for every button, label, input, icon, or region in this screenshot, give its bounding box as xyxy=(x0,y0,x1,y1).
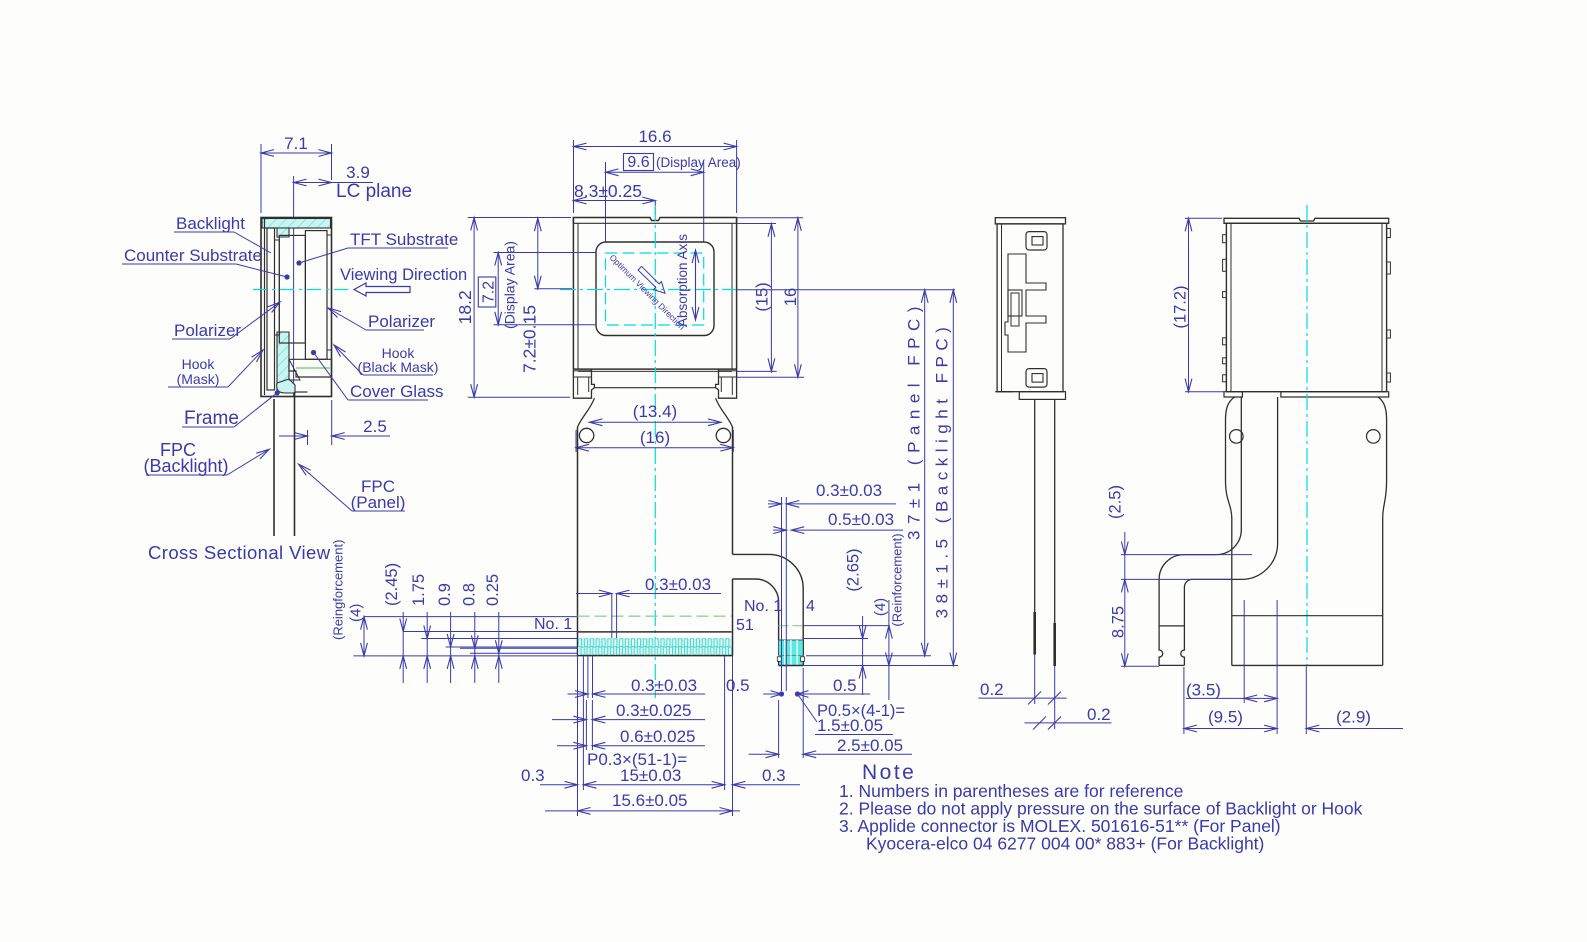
svg-text:(2.65): (2.65) xyxy=(845,548,863,591)
dim (4) right xyxy=(872,533,905,700)
optimum viewing direction arrow + text xyxy=(608,252,688,332)
dim (13.4) xyxy=(589,402,721,426)
leader P0.5x(4-1)=1.5±0.05 xyxy=(798,694,906,735)
thin side bottom cap xyxy=(995,392,1065,400)
LC plane cyan dashes (cross-section) xyxy=(253,289,349,291)
witness verticals bottom right view xyxy=(1184,600,1306,734)
label Polarizer (right) xyxy=(328,308,435,331)
svg-text:0.25: 0.25 xyxy=(484,574,502,606)
dim 0.3±0.03 under pads xyxy=(568,676,706,697)
right view edge tabs xyxy=(1223,229,1391,383)
dim 8.75 xyxy=(1110,579,1160,666)
svg-text:Hook: Hook xyxy=(182,356,216,372)
svg-text:15±0.03: 15±0.03 xyxy=(620,766,681,785)
label Cross Sectional View xyxy=(148,542,331,563)
FPC shoulders xyxy=(578,398,733,427)
dim 37±1 (Panel FPC) xyxy=(905,290,929,656)
svg-text:0.5±0.03: 0.5±0.03 xyxy=(828,510,894,529)
svg-text:Cover Glass: Cover Glass xyxy=(350,382,444,401)
label Frame xyxy=(182,390,280,429)
svg-text:Viewing Direction: Viewing Direction xyxy=(340,266,467,284)
svg-text:Kyocera-elco 04 6277 004 00* 8: Kyocera-elco 04 6277 004 00* 883+ (For B… xyxy=(866,834,1264,854)
left dims 18.2 / 7.2 disp / 7.2±0.15 xyxy=(455,218,571,398)
svg-text:0.3±0.03: 0.3±0.03 xyxy=(631,676,697,695)
dim (2.5) right view xyxy=(1107,485,1253,579)
dim (3.5) xyxy=(1186,681,1277,702)
svg-text:7.2: 7.2 xyxy=(481,281,498,303)
LC plane extension to 37/38 dims xyxy=(736,289,955,291)
dim 0.5±0.03 branch xyxy=(773,510,903,534)
svg-text:51: 51 xyxy=(736,617,754,634)
polarizer right thin xyxy=(327,235,332,350)
svg-text:0.5: 0.5 xyxy=(726,676,750,695)
note line 2 xyxy=(839,799,1363,819)
dim 9.6 (Display Area) boxed xyxy=(606,154,741,243)
dim 16.6 xyxy=(574,127,737,213)
dim (16) xyxy=(576,428,733,452)
note title xyxy=(862,761,916,784)
TFT substrate rect xyxy=(305,231,327,360)
svg-text:0.3±0.03: 0.3±0.03 xyxy=(816,481,882,500)
FPC backlight line (cross-section) xyxy=(273,399,275,536)
frame hatched column bottom-left xyxy=(277,228,295,393)
cover glass step xyxy=(289,359,332,377)
dim 0.3±0.025 xyxy=(552,701,705,723)
label Viewing Direction + hollow arrow xyxy=(340,266,467,296)
svg-text:(17.2): (17.2) xyxy=(1172,285,1190,328)
svg-text:TFT Substrate: TFT Substrate xyxy=(350,230,458,249)
cross-section dim 3.9 + LC plane label xyxy=(294,163,412,397)
svg-text:(2.9): (2.9) xyxy=(1336,708,1371,727)
dim (9.5) xyxy=(1184,708,1277,732)
label Counter Substrate xyxy=(122,246,290,280)
thin side hooks bottom xyxy=(1026,369,1047,388)
absorption axis arrow + text xyxy=(675,234,699,327)
svg-text:Polarizer: Polarizer xyxy=(174,321,241,340)
dim 0.3±0.03 branch xyxy=(768,481,896,691)
No.1 / 4 / 51 labels near branch xyxy=(736,598,815,634)
svg-text:Cross Sectional View: Cross Sectional View xyxy=(148,542,331,563)
right view FPC strip + Z bend xyxy=(1159,397,1278,665)
svg-text:Backlight: Backlight xyxy=(176,214,245,233)
svg-text:Absorption Axis: Absorption Axis xyxy=(675,234,690,327)
label Polarizer (left) xyxy=(172,302,280,340)
pads comb row (51 pads) xyxy=(578,638,732,655)
cross-section dim 7.1 xyxy=(261,134,332,213)
svg-text:0.2: 0.2 xyxy=(980,680,1004,699)
dim (2.65) xyxy=(845,548,867,695)
reinforcement level lines left xyxy=(353,617,577,656)
svg-text:(Panel): (Panel) xyxy=(351,493,406,512)
svg-text:No. 1: No. 1 xyxy=(534,616,572,633)
dim 2.5±0.05 xyxy=(749,668,912,758)
backlight FPC branch outline xyxy=(733,554,804,665)
display window rounded xyxy=(596,242,714,336)
label FPC (Backlight) xyxy=(143,440,269,476)
svg-text:18.2: 18.2 xyxy=(455,290,475,324)
svg-text:0.3±0.03: 0.3±0.03 xyxy=(645,575,711,594)
right view top cap xyxy=(1224,218,1389,223)
label FPC (Panel) xyxy=(299,464,406,512)
svg-text:(15): (15) xyxy=(754,282,772,311)
label Hook (Black Mask) xyxy=(334,345,438,375)
bezel band line between tabs xyxy=(594,387,715,389)
svg-text:9.6: 9.6 xyxy=(627,154,649,171)
svg-text:(9.5): (9.5) xyxy=(1208,708,1243,727)
stiffener top edge (black) xyxy=(578,631,732,633)
dim 0.2 upper xyxy=(978,655,1066,730)
centerline vertical (front view) xyxy=(654,205,656,698)
svg-text:Frame: Frame xyxy=(184,408,239,429)
svg-text:4: 4 xyxy=(806,598,815,615)
svg-text:16.6: 16.6 xyxy=(638,127,671,146)
polarizer left thin xyxy=(275,240,280,335)
right hook tab (front) xyxy=(716,369,737,398)
dim 0.2 lower xyxy=(1025,705,1112,730)
svg-text:0.8: 0.8 xyxy=(461,583,479,606)
FPC tail edges xyxy=(578,427,733,656)
svg-text:2.5: 2.5 xyxy=(363,417,387,436)
thin side view top cap xyxy=(995,218,1065,224)
svg-text:8.75: 8.75 xyxy=(1110,606,1128,638)
centerline horizontal (front view) xyxy=(560,289,736,291)
dim 0.3 left xyxy=(521,766,578,788)
label Hook (Mask) xyxy=(168,350,263,387)
svg-text:0.2: 0.2 xyxy=(1087,705,1111,724)
note line 1 xyxy=(839,781,1183,801)
svg-text:0.6±0.025: 0.6±0.025 xyxy=(620,727,696,746)
svg-text:(Backlight): (Backlight) xyxy=(143,456,228,476)
cross-section outer frame xyxy=(261,218,332,397)
svg-text:(Black Mask): (Black Mask) xyxy=(358,359,439,375)
thin side middle latch structure xyxy=(1005,254,1046,352)
dim 38±1.5 (Backlight FPC) xyxy=(933,290,957,666)
label TFT Substrate xyxy=(296,230,458,266)
thin side FPC tail lines xyxy=(1035,399,1055,666)
FPC bottom edge xyxy=(578,655,733,657)
svg-text:(16): (16) xyxy=(640,428,670,447)
svg-text:2.5±0.05: 2.5±0.05 xyxy=(837,736,903,755)
svg-text:37±1 (Panel FPC): 37±1 (Panel FPC) xyxy=(905,300,924,540)
display area cyan dashed xyxy=(606,253,704,325)
svg-text:LC plane: LC plane xyxy=(336,181,412,202)
svg-text:Polarizer: Polarizer xyxy=(368,312,435,331)
right view bottom cap xyxy=(1224,392,1389,397)
dim 15.6±0.05 xyxy=(545,791,740,814)
svg-text:(4): (4) xyxy=(872,598,889,616)
svg-text:(Display Area): (Display Area) xyxy=(656,155,741,170)
svg-text:3.9: 3.9 xyxy=(346,163,370,182)
svg-text:(2.45): (2.45) xyxy=(383,563,401,606)
svg-text:0.5: 0.5 xyxy=(833,676,857,695)
right view bracket outline xyxy=(1226,397,1387,665)
svg-text:0.3: 0.3 xyxy=(521,766,545,785)
svg-text:No. 1: No. 1 xyxy=(744,598,782,615)
No. 1 label left xyxy=(534,616,572,633)
left dim stack (4)(2.45)1.75 0.9 0.8 0.25 xyxy=(331,540,503,683)
note line 3 xyxy=(839,816,1281,836)
dim 0.5 right + dots xyxy=(763,676,870,697)
svg-text:(3.5): (3.5) xyxy=(1186,681,1221,700)
thin side view body xyxy=(997,224,1063,392)
dim 8.3±0.25 xyxy=(574,181,656,215)
svg-text:7.2±0.15: 7.2±0.15 xyxy=(520,305,540,373)
dim (17.2) xyxy=(1172,218,1225,391)
note line 4 xyxy=(866,834,1264,854)
label Cover Glass xyxy=(311,350,444,401)
dim P0.3x(51-1)=15±0.03 xyxy=(583,750,724,788)
svg-text:7.1: 7.1 xyxy=(284,134,308,153)
dim 2.5 (cross-section) xyxy=(279,400,390,445)
right view body xyxy=(1226,223,1386,391)
svg-text:(2.5): (2.5) xyxy=(1107,485,1125,519)
branch green dash + level lines right xyxy=(779,626,958,666)
dim 0.3 right xyxy=(733,766,801,788)
svg-text:(Display Area): (Display Area) xyxy=(502,241,518,329)
svg-text:15.6±0.05: 15.6±0.05 xyxy=(612,791,688,810)
svg-text:(13.4): (13.4) xyxy=(633,402,677,421)
svg-text:1.5±0.05: 1.5±0.05 xyxy=(817,716,883,735)
witness verticals under tail xyxy=(578,656,733,816)
front view body outline xyxy=(573,218,736,372)
green dashed reinforcement line xyxy=(578,615,732,617)
svg-text:(4): (4) xyxy=(348,604,365,622)
dim 0.6±0.025 xyxy=(557,727,705,749)
label Backlight xyxy=(174,214,271,253)
svg-text:0.3: 0.3 xyxy=(762,766,786,785)
right view holes xyxy=(1230,430,1381,444)
svg-text:16: 16 xyxy=(782,288,800,306)
right view centerline xyxy=(1306,205,1308,666)
counter substrate rect xyxy=(279,235,305,343)
backlight sheet stack (left plates) xyxy=(265,219,275,395)
dim 0.3±0.03 (pad width, above pads) xyxy=(576,575,721,638)
right dims (15) and 16 xyxy=(736,218,804,377)
svg-text:(Reinforcement): (Reinforcement) xyxy=(890,533,905,626)
svg-text:Counter Substrate: Counter Substrate xyxy=(124,246,262,265)
svg-text:0.3±0.025: 0.3±0.025 xyxy=(616,701,692,720)
svg-text:(Reingforcement): (Reingforcement) xyxy=(331,540,346,640)
svg-text:0.9: 0.9 xyxy=(436,583,454,606)
svg-text:38±1.5 (Backlight FPC): 38±1.5 (Backlight FPC) xyxy=(933,322,952,619)
FPC holes xyxy=(579,428,730,442)
dim (2.9) xyxy=(1306,708,1403,732)
dim 0.5 left (margin) xyxy=(726,676,750,695)
branch pads xyxy=(777,640,804,666)
FPC panel line (cross-section) xyxy=(294,392,296,536)
left hook tab (front) xyxy=(573,369,594,398)
svg-text:(Mask): (Mask) xyxy=(177,371,220,387)
FPC wedge below stack xyxy=(289,359,308,392)
svg-text:1.75: 1.75 xyxy=(410,574,428,606)
thin side hooks top xyxy=(1026,232,1047,250)
